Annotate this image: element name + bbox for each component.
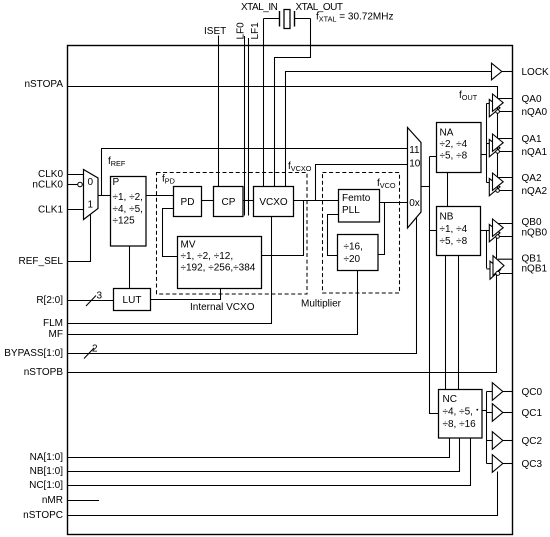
wire nCLK0 input	[67, 184, 77, 186]
wire NC output to QC buffers	[482, 410, 487, 412]
wire VCXO output to Femto PLL	[294, 200, 339, 202]
bypass mux	[408, 128, 422, 229]
wire nSTOPC net	[67, 472, 498, 516]
svg-text:QA1: QA1	[522, 134, 542, 145]
svg-text:QB0: QB0	[522, 217, 542, 228]
svg-text:nQA0: nQA0	[522, 107, 548, 118]
wire fREF net to bypass mux input 11	[102, 149, 408, 196]
svg-text:NA[1:0]: NA[1:0]	[30, 452, 64, 463]
svg-text:÷125: ÷125	[113, 216, 136, 227]
wire CLK1 input	[67, 209, 84, 211]
dashed box Internal VCXO	[157, 173, 308, 295]
svg-text:LF0: LF0	[235, 22, 246, 40]
svg-text:÷1, ÷2,: ÷1, ÷2,	[113, 192, 143, 203]
feedback divider 16/20	[338, 235, 379, 271]
svg-text:NB[1:0]: NB[1:0]	[30, 466, 64, 477]
output buffer QC3	[487, 455, 513, 473]
svg-text:3: 3	[97, 291, 103, 302]
svg-text:1: 1	[88, 200, 94, 211]
svg-text:QC1: QC1	[522, 408, 543, 419]
svg-text:nQB1: nQB1	[522, 263, 548, 274]
wire nSTOPB net	[67, 235, 497, 373]
svg-text:nQB0: nQB0	[522, 228, 548, 239]
svg-text:÷20: ÷20	[344, 254, 361, 265]
wire PD to CP	[202, 200, 214, 202]
wire CLK0 input	[67, 174, 84, 176]
svg-text:CLK1: CLK1	[38, 204, 63, 215]
svg-text:P: P	[113, 177, 120, 188]
wire QA buffer input bus	[486, 104, 488, 183]
svg-text:0x: 0x	[409, 198, 420, 209]
svg-text:NA: NA	[440, 128, 454, 139]
svg-text:10: 10	[409, 159, 421, 170]
svg-text:MF: MF	[49, 329, 63, 340]
wire divider 16/20 output to Femto PLL feedback	[328, 215, 339, 256]
divider NB	[437, 207, 481, 256]
svg-text:÷4, ÷5,: ÷4, ÷5,	[443, 407, 473, 418]
wire XTAL_OUT to VCXO	[275, 19, 311, 187]
svg-text:BYPASS[1:0]: BYPASS[1:0]	[4, 348, 63, 359]
wire QB buffer input bus	[486, 231, 488, 269]
chip outer boundary	[68, 46, 513, 535]
svg-text:nQA2: nQA2	[522, 186, 548, 197]
svg-text:QA2: QA2	[522, 173, 542, 184]
crystal Y1	[264, 10, 311, 29]
svg-text:CP: CP	[222, 197, 236, 208]
divider NA	[437, 123, 482, 173]
wire bus stub to NA	[430, 156, 437, 158]
Femto PLL block	[339, 190, 380, 223]
svg-text:nSTOPB: nSTOPB	[24, 367, 64, 378]
VCXO block	[254, 187, 294, 217]
svg-text:÷4, ÷5,: ÷4, ÷5,	[113, 204, 143, 215]
svg-text:PLL: PLL	[342, 205, 360, 216]
svg-text:nMR: nMR	[42, 495, 63, 506]
wire LUT output to MV	[151, 289, 221, 300]
output buffer QC1	[487, 404, 513, 422]
svg-text:÷16,: ÷16,	[344, 242, 363, 253]
svg-text:0: 0	[88, 177, 94, 188]
svg-text:PD: PD	[181, 197, 195, 208]
svg-text:CLK0: CLK0	[38, 169, 63, 180]
svg-text:÷1, ÷2, ÷12,: ÷1, ÷2, ÷12,	[181, 251, 234, 262]
svg-text:QC2: QC2	[522, 436, 543, 447]
svg-text:ISET: ISET	[204, 26, 226, 37]
svg-text:QC0: QC0	[522, 387, 543, 398]
wire fVCXO net to bypass mux input 10	[316, 165, 408, 201]
wire NA[1:0] through NB	[447, 173, 449, 207]
charge pump CP	[214, 187, 244, 217]
svg-text:nSTOPC: nSTOPC	[23, 510, 63, 521]
svg-text:NB: NB	[440, 212, 454, 223]
svg-text:QC3: QC3	[522, 459, 543, 470]
wire bus stub to NB	[430, 230, 437, 232]
svg-text:LOCK: LOCK	[522, 67, 550, 78]
wire NA[1:0] through NC	[445, 256, 447, 390]
svg-text:÷5, ÷8: ÷5, ÷8	[440, 236, 468, 247]
wire fVCO Femto PLL output to bypass mux input 0x	[380, 202, 408, 204]
svg-text:÷2, ÷4: ÷2, ÷4	[440, 139, 468, 150]
wire FLM input to VCXO	[67, 217, 272, 324]
divider NC	[439, 390, 483, 439]
svg-text:÷8, ÷16: ÷8, ÷16	[443, 419, 477, 430]
svg-text:Multiplier: Multiplier	[301, 299, 342, 310]
svg-text:Femto: Femto	[342, 193, 371, 204]
svg-text:nSTOPA: nSTOPA	[24, 79, 63, 90]
wire nSTOPA net	[67, 87, 498, 191]
wire REF_SEL to mux select	[67, 214, 91, 262]
svg-text:Internal VCXO: Internal VCXO	[190, 302, 255, 313]
LUT block	[114, 289, 151, 311]
divider MV	[178, 237, 262, 289]
LOCK output buffer	[492, 63, 513, 80]
svg-text:÷5, ÷8: ÷5, ÷8	[440, 151, 468, 162]
svg-text:R[2:0]: R[2:0]	[36, 295, 63, 306]
svg-text:FLM: FLM	[43, 318, 63, 329]
wire NB output to QB buffers	[481, 230, 490, 232]
svg-text:NC: NC	[443, 394, 457, 405]
wire LF1 pin	[248, 38, 250, 216]
svg-text:nCLK0: nCLK0	[32, 179, 63, 190]
divider P	[111, 177, 147, 247]
wire P to PD	[146, 195, 174, 197]
input reference mux	[84, 170, 99, 220]
wire CP to VCXO	[243, 200, 254, 202]
differential output buffer QA0/nQA0	[487, 94, 513, 117]
wire MF input to divider 16/20	[67, 271, 358, 335]
wire LOCK net from VCXO to buffer	[286, 72, 492, 187]
dashed box Multiplier	[323, 173, 400, 294]
differential output buffer QA1/nQA1	[487, 134, 513, 157]
wire QC buffer input bus	[486, 392, 488, 464]
bus width slash 2 for BYPASS[1:0]	[84, 348, 94, 359]
svg-text:÷192, ÷256,÷384: ÷192, ÷256,÷384	[181, 263, 256, 274]
wire MV feedback to PD	[163, 209, 178, 257]
wire NB[1:0] through NC	[458, 256, 460, 390]
wire R[2:0] input to LUT	[67, 300, 114, 302]
svg-text:VCXO: VCXO	[259, 197, 288, 208]
bus width slash 3 for R[2:0]	[86, 296, 96, 307]
svg-text:2: 2	[92, 344, 98, 355]
wire XTAL_IN to VCXO	[263, 19, 265, 187]
wire bypass mux output	[421, 186, 430, 188]
wire P to LUT	[129, 247, 131, 289]
wire ISET pin to CP	[218, 36, 220, 187]
wire NC[1:0] input	[67, 438, 471, 486]
svg-text:XTAL_IN: XTAL_IN	[241, 2, 278, 13]
wire BYPASS[1:0] to mux select	[67, 217, 417, 354]
differential output buffer QB0/nQB0	[489, 219, 512, 242]
wire NA output to QA buffers	[481, 154, 487, 156]
nCLK0 inversion bubble	[78, 182, 83, 187]
svg-text:QA0: QA0	[522, 94, 542, 105]
wire Femto PLL output tap to divider 16/20 input	[378, 203, 385, 255]
output buffer QC0	[487, 383, 513, 401]
wire LF0 pin	[244, 36, 246, 216]
wire nMR input stub	[67, 500, 99, 502]
svg-text:nQA1: nQA1	[522, 147, 548, 158]
wire input mux output to P	[98, 195, 111, 197]
svg-text:11: 11	[409, 145, 420, 156]
svg-text:MV: MV	[181, 240, 196, 251]
svg-text:REF_SEL: REF_SEL	[19, 256, 64, 267]
svg-text:÷1, ÷4: ÷1, ÷4	[440, 224, 468, 235]
wire VCXO output tap to MV input	[262, 201, 304, 256]
wire divider input bus to NC	[430, 157, 439, 414]
differential output buffer QB1/nQB1	[487, 256, 513, 280]
wire NA[1:0] input	[67, 438, 450, 458]
output buffer QC2	[487, 432, 513, 450]
differential output buffer QA2/nQA2	[487, 173, 513, 196]
svg-text:LF1: LF1	[250, 22, 261, 40]
svg-text:NC[1:0]: NC[1:0]	[29, 480, 63, 491]
svg-text:LUT: LUT	[123, 295, 142, 306]
phase detector PD	[174, 187, 202, 217]
wire NB[1:0] input	[67, 438, 460, 472]
